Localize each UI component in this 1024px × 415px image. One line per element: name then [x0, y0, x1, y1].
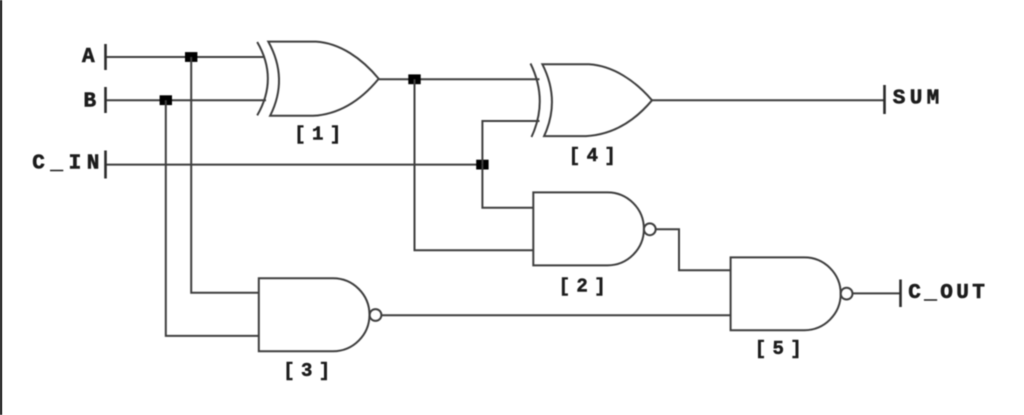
bubble gate 3: [370, 309, 382, 321]
nand-gate [2]: [533, 192, 644, 265]
nand-gate [5]: [731, 257, 841, 330]
svg-text:[1]: [1]: [294, 123, 347, 145]
wire C_IN up to gate 4 bottom input: [482, 121, 539, 165]
junction B: [160, 95, 172, 105]
svg-text:[2]: [2]: [559, 276, 612, 298]
wire C_IN down to gate 2 top input: [482, 165, 534, 208]
svg-text:[5]: [5]: [755, 338, 808, 360]
junction gate1 output: [408, 74, 420, 84]
wire junction down to gate 2 bottom input: [415, 79, 535, 250]
wire C_IN input: [107, 164, 483, 166]
frame left border: [0, 0, 2, 415]
bubble gate 2: [644, 223, 656, 235]
pin tick C_IN: [104, 151, 107, 179]
svg-text:SUM: SUM: [893, 87, 944, 110]
svg-text:B: B: [84, 91, 101, 114]
svg-text:[4]: [4]: [569, 145, 622, 167]
nand-gate [3]: [259, 278, 370, 351]
svg-text:[3]: [3]: [283, 360, 336, 382]
xor-gate [1]: [257, 42, 379, 116]
xor-gate [4]: [531, 64, 653, 138]
wire A to gate 3 top input: [191, 57, 260, 293]
pin tick A: [104, 44, 107, 70]
wire B input: [107, 99, 267, 101]
pin tick B: [104, 87, 107, 113]
svg-text:C_IN: C_IN: [32, 153, 105, 176]
pin tick C_OUT: [899, 280, 902, 308]
wire gate1 output to gate4 top input: [379, 78, 540, 80]
wire gate3 output to gate5 bottom input: [381, 314, 731, 316]
svg-text:C_OUT: C_OUT: [908, 282, 988, 305]
wire C_OUT output: [853, 292, 901, 294]
bubble gate 5: [841, 288, 853, 300]
wire A input: [107, 56, 266, 58]
junction C_IN: [476, 160, 488, 170]
wire B to gate 3 bottom input: [166, 100, 260, 336]
svg-text:A: A: [82, 46, 99, 69]
wire gate2 output to gate5 top input: [656, 229, 732, 270]
pin tick SUM: [883, 85, 886, 114]
wire SUM output: [652, 99, 884, 101]
junction A: [185, 52, 197, 62]
